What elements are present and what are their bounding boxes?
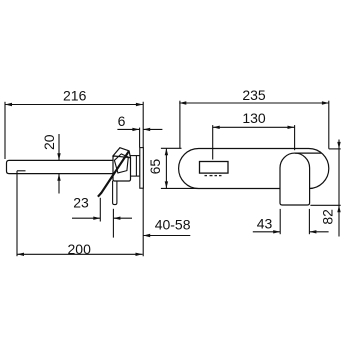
dimension 130 line <box>213 126 295 129</box>
dimension 200 line <box>17 253 143 256</box>
extension line spout centre (130 dim) <box>294 125 296 150</box>
dimension 6 line <box>117 128 162 131</box>
spout front view <box>280 153 310 205</box>
extension line from outlet (200 dim left) <box>16 171 18 256</box>
svg-text:82: 82 <box>319 209 335 225</box>
dimension 82 line <box>337 140 340 237</box>
svg-text:235: 235 <box>242 87 266 103</box>
svg-text:23: 23 <box>73 195 89 211</box>
dimension 20 line upper <box>57 134 60 160</box>
extension line stadium top right (82 dim) <box>329 148 341 150</box>
lever foot <box>98 193 101 197</box>
svg-text:65: 65 <box>147 159 163 175</box>
dimension 40-58 line <box>143 234 190 237</box>
extension line stadium left (235 dim) <box>179 101 181 149</box>
extension line left of 216 (spout tip) <box>4 102 6 159</box>
svg-text:216: 216 <box>63 88 87 104</box>
extension line plate front (6 dim) <box>139 128 141 148</box>
neck step line <box>135 156 137 177</box>
extension line stadium bottom (65 dim) <box>161 187 195 189</box>
window on plate <box>200 162 229 174</box>
dimension 43 line <box>253 230 329 233</box>
escutcheon plate front view (stadium) <box>179 149 329 189</box>
cartridge pentagon <box>114 154 128 173</box>
extension line lever tip (23 dim) <box>99 198 101 222</box>
wall plate side view <box>140 148 144 189</box>
aerator tick inside spout <box>17 170 26 172</box>
handle cap tilted <box>113 148 130 158</box>
handle lever open position <box>101 151 129 193</box>
mixer body side view <box>113 156 131 181</box>
svg-text:130: 130 <box>242 110 266 126</box>
svg-text:40-58: 40-58 <box>155 217 191 233</box>
extension line wall face (right of 216/200/40-58) <box>142 102 144 256</box>
svg-text:43: 43 <box>257 215 273 231</box>
brand marks under window <box>205 175 222 177</box>
extension line spout right (43 dim) <box>308 209 310 234</box>
extension line window centre (130 dim) <box>212 125 214 159</box>
dimension 23 line <box>72 217 132 220</box>
handle bar closed position <box>113 181 117 205</box>
extension line stadium right (235/82 dim) <box>328 101 330 149</box>
extension line bar (23 dim) <box>112 209 114 238</box>
spout side view <box>7 160 114 173</box>
svg-text:6: 6 <box>118 113 126 129</box>
extension line spout left (43 dim) <box>279 209 281 234</box>
svg-text:20: 20 <box>41 134 57 150</box>
dimension 20 line lower <box>57 174 60 194</box>
dimension 235 line <box>179 101 329 104</box>
dimension 65 line <box>165 148 168 188</box>
extension line stadium top (65 dim) <box>161 147 182 149</box>
extension line spout bottom (82 dim) <box>310 204 340 206</box>
neck connector to wall plate <box>130 156 140 177</box>
dimension 216 line <box>5 103 143 106</box>
spout bend tangent line <box>295 152 322 154</box>
